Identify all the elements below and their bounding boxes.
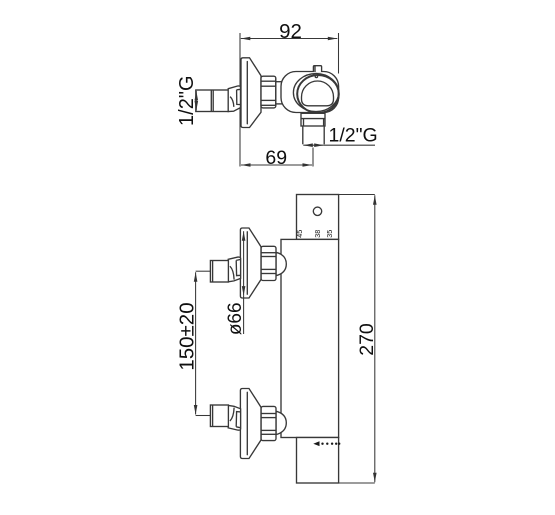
wall bracket plate (top) [297, 195, 339, 240]
thread relief groove [210, 90, 212, 112]
outlet collar (top view) [301, 113, 325, 126]
valve body (top view, capsule outline) [281, 72, 339, 113]
knob outer circle (thick) [297, 75, 339, 113]
dimension 150±20: dimension line [195, 272, 197, 414]
outlet indicator: dotted leader with arrow [313, 441, 319, 446]
lower union nut (tilted) [228, 405, 240, 430]
outlet thread dimension + leader under 1/2"G [303, 144, 323, 146]
upper union nut (tilted) [228, 257, 240, 282]
dimension 92: left extension line (wall plane, long) [239, 33, 241, 167]
main body (front view) [281, 239, 339, 437]
dimension ø66 line with arrows + leader [243, 231, 245, 295]
knob inner D-shape [302, 81, 334, 106]
svg-text:1/2"G: 1/2"G [176, 75, 198, 125]
bottom section of body [297, 438, 339, 484]
button tab on top of knob [313, 66, 321, 72]
svg-text:150±20: 150±20 [176, 302, 199, 370]
wall escutcheon (top view) [241, 58, 261, 128]
upper inlet pipe [210, 261, 228, 283]
outlet pipe (top view) [302, 126, 304, 144]
svg-text:92: 92 [279, 20, 302, 43]
inlet pipe diameter dimension (arrows) [195, 91, 197, 111]
knob skirt ellipse [293, 74, 338, 112]
lower inlet pipe [210, 405, 228, 427]
svg-text:35: 35 [325, 230, 334, 238]
svg-text:45: 45 [295, 230, 304, 238]
svg-text:38: 38 [313, 230, 322, 238]
connector step between nut and body [275, 79, 277, 106]
dimension 69: right extension line [312, 148, 314, 167]
dimension 92: dimension line [241, 38, 337, 40]
svg-text:1/2"G: 1/2"G [329, 125, 378, 147]
hex nut (top view) [261, 76, 276, 108]
escutcheon face line [246, 62, 248, 124]
bracket top edge extension to 270 dim [339, 194, 375, 196]
dimension 270: dimension line [374, 195, 376, 482]
upper wall escutcheon (front view) [240, 228, 261, 298]
index notch on knob [315, 75, 317, 77]
inlet pipe (threaded fitting, top view) [196, 90, 229, 112]
svg-text:ø66: ø66 [225, 302, 246, 335]
lower inlet check-valve dome [276, 411, 286, 434]
dimension 69: dimension line [241, 164, 312, 166]
svg-text:270: 270 [356, 323, 378, 356]
svg-text:69: 69 [265, 147, 287, 169]
bracket hole [313, 207, 321, 215]
bottom edge extension to 270 dim [339, 482, 375, 484]
upper inlet hex nut [261, 246, 276, 280]
upper inlet check-valve dome [276, 252, 286, 275]
dimension 92: right extension line [338, 33, 340, 74]
dimension 150±20: bottom stub [196, 415, 211, 417]
lower inlet hex nut [261, 406, 276, 440]
offset union nut (tilted, top view) [228, 86, 240, 112]
dimension 150±20: top stub [196, 270, 211, 272]
lower wall escutcheon (front view) [240, 389, 261, 459]
